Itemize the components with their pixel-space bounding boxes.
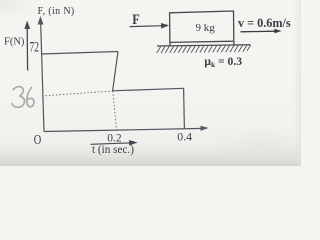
block (9 kg) [170, 11, 234, 42]
svg-text:μk = 0.3: μk = 0.3 [204, 55, 242, 69]
step at 36 N [113, 88, 184, 91]
x-axis [44, 128, 204, 131]
paper shading bottom-right [202, 124, 320, 168]
page background [0, 0, 301, 166]
dotted level 36 [42, 91, 113, 96]
svg-text:t (in sec.): t (in sec.) [92, 144, 134, 156]
velocity arrow [241, 30, 277, 33]
svg-text:72: 72 [30, 39, 40, 55]
svg-text:v = 0.6m/s: v = 0.6m/s [238, 16, 291, 30]
step at 72 N [41, 52, 118, 55]
y-axis [41, 21, 44, 132]
paper shading top-left corner [0, 0, 42, 20]
svg-text:9 kg: 9 kg [196, 22, 216, 34]
svg-text:F, (in N): F, (in N) [38, 6, 75, 17]
handwritten 36 [12, 87, 34, 108]
svg-text:F(N): F(N) [4, 37, 25, 48]
drop at t=0.4 [183, 88, 186, 129]
y-axis arrowhead [38, 16, 44, 25]
ground line [157, 45, 251, 46]
ground hatching [157, 45, 251, 53]
dotted vertical at t=0.2 [113, 91, 117, 132]
F(N) annotation arrow [26, 26, 28, 71]
drop at t=0.2 [113, 52, 118, 91]
t axis annotation arrow [91, 143, 134, 145]
block left edge extension to ground [169, 42, 171, 45]
right page edge shading [293, 0, 301, 166]
svg-text:0.4: 0.4 [177, 130, 192, 144]
x-axis arrowhead [201, 126, 209, 131]
svg-text:O: O [34, 133, 42, 148]
block right edge extension to ground [233, 41, 235, 45]
applied force arrow [130, 25, 164, 28]
